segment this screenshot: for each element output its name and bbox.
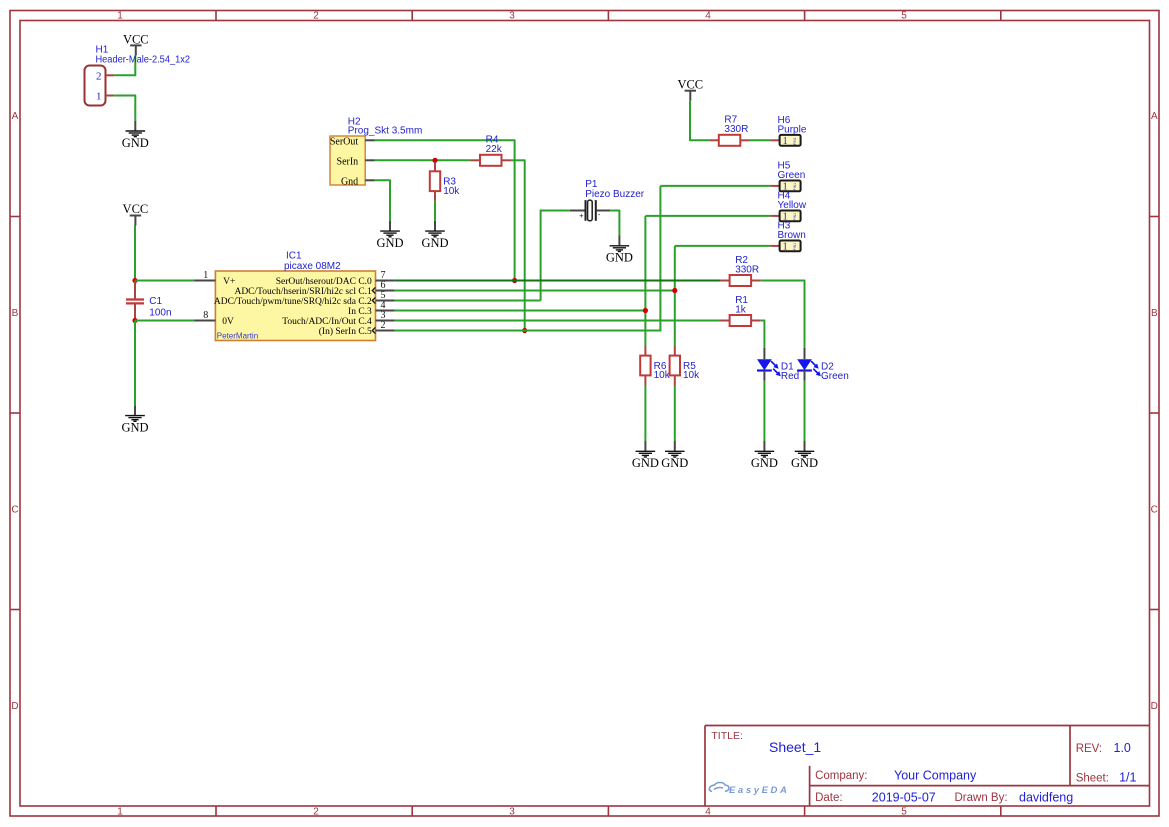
junction	[132, 318, 137, 323]
wire R3 to GND	[434, 201, 436, 221]
P1 pin -	[597, 210, 610, 212]
svg-text:VCC: VCC	[677, 77, 703, 91]
svg-text:1: 1	[117, 807, 123, 818]
svg-text:C: C	[1151, 505, 1158, 516]
wire VCC down to R7	[689, 101, 691, 141]
wire H2 Gnd to GND	[375, 179, 391, 181]
svg-text:1: 1	[96, 91, 102, 103]
wire R5 to GND	[674, 385, 676, 441]
ground symbol GND (under R5)	[661, 441, 688, 470]
resistor R7 330R (horizontal)	[709, 115, 750, 146]
wire H2 SerIn to R4	[375, 159, 471, 161]
resistor R3 10k (vertical)	[430, 162, 461, 201]
IC1 pin 4	[376, 310, 395, 312]
svg-text:SerOut/hserout/DAC C.0: SerOut/hserout/DAC C.0	[276, 277, 372, 287]
svg-text:VCC: VCC	[123, 32, 149, 46]
header H5 Green (1x1)	[770, 161, 805, 193]
svg-text:5: 5	[901, 11, 907, 22]
svg-text:Brown: Brown	[778, 230, 806, 241]
wire IC pin2 to H5 net	[395, 330, 662, 332]
wire SerOut vertical down to IC pin7 net	[514, 140, 516, 280]
wire R4 net down to IC pin2 net	[524, 160, 526, 330]
resistor R5 10k (vertical)	[670, 346, 701, 385]
svg-text:330R: 330R	[735, 264, 759, 275]
junction	[522, 328, 527, 333]
svg-text:GND: GND	[421, 236, 448, 250]
wire node to IC pin 8	[135, 320, 195, 322]
svg-text:ADC/Touch/pwm/tune/SRQ/hi2c sd: ADC/Touch/pwm/tune/SRQ/hi2c sda C.2	[214, 297, 372, 307]
wire H1 pin1 to GND	[114, 95, 136, 97]
wire R2 to D2	[761, 280, 806, 282]
svg-text:GND: GND	[606, 251, 633, 265]
power flag VCC (VCC H1)	[123, 32, 149, 55]
svg-text:EasyEDA: EasyEDA	[729, 785, 789, 796]
H1 pin 2	[106, 74, 115, 76]
svg-text:A: A	[1151, 111, 1158, 122]
wire R7 to H6	[750, 139, 770, 141]
wire IC pin7 to R2 (doubled, darker)	[395, 280, 720, 282]
junction	[672, 288, 677, 293]
ground symbol GND (under C1)	[121, 405, 148, 434]
svg-text:22k: 22k	[486, 144, 503, 155]
wire H4 to IC pin4 net	[645, 215, 770, 217]
svg-text:PIN1: PIN1	[793, 137, 797, 144]
svg-text:Piezo Buzzer: Piezo Buzzer	[585, 189, 645, 200]
IC1 pin 5	[376, 300, 395, 302]
svg-text:1: 1	[783, 136, 788, 147]
wire P1 left to IC pin5 net	[541, 210, 570, 212]
resistor R2 330R (horizontal)	[720, 255, 761, 286]
H2 pin SerOut	[365, 139, 374, 141]
svg-text:picaxe 08M2: picaxe 08M2	[284, 261, 341, 272]
power flag VCC (VCC R7)	[677, 77, 703, 100]
wire IC pin5 to P1 net	[395, 300, 541, 302]
svg-text:D: D	[1151, 701, 1158, 712]
svg-text:PIN1: PIN1	[793, 213, 797, 220]
wire R1 to D1	[761, 320, 766, 322]
wire H3 to IC pin6 net	[675, 245, 771, 247]
wire D2 to GND	[804, 381, 806, 441]
ground symbol GND (under H1)	[122, 121, 149, 150]
svg-text:TITLE:: TITLE:	[711, 730, 743, 742]
resistor R4 22k (horizontal)	[470, 135, 511, 166]
svg-text:GND: GND	[121, 421, 148, 435]
svg-text:Date:: Date:	[815, 792, 843, 804]
svg-text:10k: 10k	[683, 370, 700, 381]
wire R4 right to vertical	[511, 159, 525, 161]
junction	[132, 278, 137, 283]
ground symbol GND (under R6)	[632, 441, 659, 470]
P1 pin +	[570, 210, 585, 212]
svg-text:C: C	[11, 505, 18, 516]
H2 pin SerIn	[365, 159, 374, 161]
junction	[432, 158, 437, 163]
svg-text:10k: 10k	[654, 370, 671, 381]
svg-text:Prog_Skt 3.5mm: Prog_Skt 3.5mm	[348, 125, 422, 136]
svg-text:GND: GND	[791, 456, 818, 470]
svg-text:GND: GND	[376, 236, 403, 250]
svg-text:Yellow: Yellow	[778, 200, 807, 211]
svg-text:5: 5	[901, 807, 907, 818]
svg-text:Your Company: Your Company	[894, 768, 977, 782]
LED D1 Red	[757, 348, 799, 382]
svg-text:Gnd: Gnd	[341, 177, 358, 188]
svg-text:Touch/ADC/In/Out C.4: Touch/ADC/In/Out C.4	[282, 317, 372, 327]
header H3 Brown (1x1)	[770, 221, 806, 253]
svg-text:GND: GND	[661, 456, 688, 470]
IC1 pin 1 (V+)	[195, 280, 216, 282]
svg-text:3: 3	[509, 807, 515, 818]
svg-text:4: 4	[705, 807, 711, 818]
IC1 pin 2	[376, 330, 395, 332]
LED D2 Green	[797, 348, 849, 382]
svg-text:IC1: IC1	[286, 251, 302, 262]
svg-text:1: 1	[203, 270, 208, 281]
svg-text:In C.3: In C.3	[348, 307, 372, 317]
svg-text:GND: GND	[122, 136, 149, 150]
wire node to IC pin 1	[135, 280, 195, 282]
capacitor C1 100n	[126, 281, 172, 321]
svg-text:Green: Green	[778, 170, 806, 181]
resistor R6 10k (vertical)	[640, 346, 671, 385]
H1 pin 1	[106, 95, 115, 97]
svg-text:B: B	[12, 308, 19, 319]
wire H2 SerOut to vertical	[375, 139, 516, 141]
svg-text:1/1: 1/1	[1119, 771, 1136, 785]
ground symbol GND (under R3)	[421, 221, 448, 250]
wire VCC to H1 pin 2	[134, 55, 136, 75]
wire IC pin3 to R1	[395, 320, 720, 322]
ground symbol GND (under P1)	[606, 236, 633, 265]
svg-text:Company:: Company:	[815, 770, 867, 782]
power flag VCC (VCC IC)	[123, 202, 149, 226]
svg-text:4: 4	[705, 11, 711, 22]
wire C1 bottom to GND	[134, 321, 136, 406]
svg-text:0V: 0V	[222, 317, 234, 327]
ground symbol GND (under D1)	[751, 441, 778, 470]
IC1 pin 6	[376, 290, 395, 292]
wire D1 to GND	[763, 381, 765, 441]
svg-text:Header-Male-2.54_1x2: Header-Male-2.54_1x2	[96, 55, 191, 66]
svg-text:SerIn: SerIn	[337, 157, 359, 168]
EasyEDA logo	[709, 783, 789, 797]
header H2 Prog_Skt 3.5mm	[330, 117, 422, 188]
svg-text:Sheet_1: Sheet_1	[769, 739, 821, 755]
svg-text:1k: 1k	[735, 304, 747, 315]
svg-text:Sheet:: Sheet:	[1076, 773, 1109, 785]
header H4 Yellow (1x1)	[770, 191, 807, 223]
svg-text:VCC: VCC	[123, 202, 149, 216]
wire IC pin6 to H3 net	[395, 290, 675, 292]
svg-text:Green: Green	[821, 371, 849, 382]
svg-text:davidfeng: davidfeng	[1019, 790, 1073, 804]
svg-text:PIN1: PIN1	[793, 243, 797, 250]
svg-text:8: 8	[203, 310, 208, 321]
svg-text:PIN1: PIN1	[793, 183, 797, 190]
ground symbol GND (under H2 Gnd)	[376, 221, 403, 250]
svg-text:REV:: REV:	[1076, 743, 1102, 755]
svg-text:PeterMartin: PeterMartin	[217, 332, 258, 341]
svg-text:V+: V+	[223, 277, 235, 287]
svg-text:ADC/Touch/hserin/SRI/hi2c scl: ADC/Touch/hserin/SRI/hi2c scl C.1	[234, 287, 372, 297]
svg-text:2: 2	[96, 70, 102, 82]
wire P1 right to GND	[610, 210, 620, 212]
junction	[643, 308, 648, 313]
svg-text:(In) SerIn C.5: (In) SerIn C.5	[319, 326, 372, 337]
wire H5 to IC pin2 net	[660, 185, 770, 187]
H2 pin Gnd	[365, 179, 374, 181]
svg-text:C1: C1	[149, 296, 162, 307]
header H1 Header-Male-2.54_1x2	[85, 45, 191, 106]
IC1 pin 8 (0V)	[195, 320, 216, 322]
svg-text:100n: 100n	[149, 307, 171, 318]
svg-text:A: A	[12, 111, 19, 122]
svg-text:1: 1	[117, 11, 123, 22]
svg-text:D: D	[11, 701, 18, 712]
op IC1 picaxe 08M2	[195, 251, 395, 341]
title block	[705, 726, 1150, 807]
svg-text:330R: 330R	[724, 124, 748, 135]
buzzer P1 Piezo Buzzer	[570, 179, 645, 221]
header H6 Purple (1x1)	[770, 115, 807, 147]
svg-text:SerOut: SerOut	[330, 137, 359, 148]
IC1 pin 7	[376, 280, 395, 282]
svg-text:2: 2	[381, 320, 386, 331]
svg-text:GND: GND	[632, 456, 659, 470]
svg-text:10k: 10k	[443, 186, 460, 197]
svg-text:Red: Red	[781, 371, 799, 382]
svg-text:3: 3	[509, 11, 515, 22]
junction	[512, 278, 517, 283]
svg-text:2: 2	[313, 807, 319, 818]
resistor R1 1k (horizontal)	[720, 295, 761, 326]
wire R6 to GND	[644, 385, 646, 441]
svg-text:GND: GND	[751, 456, 778, 470]
ground symbol GND (under D2)	[791, 441, 818, 470]
wire VCC down to IC V+ node	[134, 226, 136, 281]
svg-text:Drawn By:: Drawn By:	[955, 792, 1008, 804]
svg-text:2019-05-07: 2019-05-07	[872, 790, 936, 804]
svg-text:Purple: Purple	[778, 125, 807, 136]
svg-text:2: 2	[313, 11, 319, 22]
IC1 pin 3	[376, 320, 395, 322]
svg-text:1.0: 1.0	[1114, 741, 1131, 755]
svg-text:+: +	[579, 211, 584, 220]
svg-text:B: B	[1151, 308, 1158, 319]
svg-text:1: 1	[783, 242, 788, 253]
wire IC pin4 to H4 net	[395, 310, 646, 312]
